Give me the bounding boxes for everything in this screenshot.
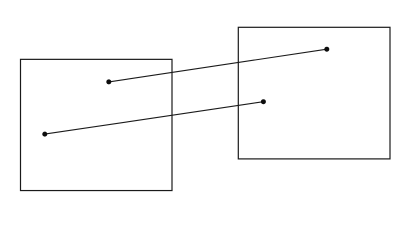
left rectangle [21,59,173,190]
node: point in left rectangle (lower) [42,132,47,137]
node: point in left rectangle (upper) [106,79,111,84]
wire: translation segment 1 [109,49,327,82]
node: image point in right rectangle (upper) [324,47,329,52]
node: image point in right rectangle (lower) [261,99,266,104]
wire: translation segment 2 [45,102,264,134]
right rectangle [238,27,390,159]
